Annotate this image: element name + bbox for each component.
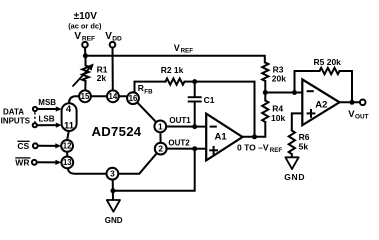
label CS (active low)	[17, 141, 29, 151]
svg-text:V: V	[105, 31, 112, 42]
svg-text:10k: 10k	[271, 113, 285, 123]
junction R2/C1/feedback	[192, 79, 197, 84]
wire+arrow LSB to pin 11	[37, 123, 62, 128]
wire feedback top (junction to riser)	[195, 82, 255, 137]
terminal MSB (open circle)	[33, 107, 37, 111]
terminal WR (open circle)	[32, 160, 37, 165]
svg-text:4: 4	[66, 104, 72, 115]
svg-text:LSB: LSB	[39, 115, 55, 124]
wire A1 output to R4 bottom	[243, 122, 266, 137]
label R6 5k	[299, 132, 310, 152]
label R3 20k	[272, 64, 286, 83]
svg-text:R2 1k: R2 1k	[161, 65, 184, 75]
svg-text:A2: A2	[315, 99, 327, 110]
label VOUT	[348, 109, 368, 121]
svg-text:1: 1	[158, 121, 163, 131]
label AD7524	[92, 124, 142, 139]
pin 3 (GND)	[107, 168, 119, 180]
pin 12 (CS)	[61, 140, 73, 152]
terminal CS (open circle)	[33, 143, 38, 148]
svg-text:V: V	[74, 31, 81, 42]
junction R3/R4 to A2 input	[263, 90, 268, 95]
pin 11 number (LSB input)	[64, 120, 75, 131]
label WR (active low)	[15, 158, 30, 168]
svg-text:5k: 5k	[299, 142, 309, 152]
svg-text:R6: R6	[299, 132, 310, 142]
wire VDD terminal down to pin 14	[112, 48, 114, 92]
svg-text:OUT: OUT	[355, 114, 369, 121]
resistor R5 20k	[320, 68, 340, 74]
junction pin3/OUT2 ground node	[111, 188, 116, 193]
wire OUT1 pin1 to A1 inverting input	[166, 126, 206, 128]
label ±10V (ac or dc) supply note	[68, 11, 102, 31]
wire VREF terminal to junction	[84, 48, 86, 56]
pin 13 (WR)	[61, 157, 73, 169]
svg-text:INPUTS: INPUTS	[1, 117, 31, 126]
label OUT2	[168, 138, 190, 147]
label C1	[204, 95, 215, 105]
capacitor C1	[188, 82, 202, 127]
resistor R1 2k (variable, arrow)	[73, 56, 94, 91]
label R4 10k	[271, 103, 285, 123]
pin 1 (OUT1)	[154, 121, 166, 133]
svg-text:OUT1: OUT1	[169, 116, 191, 125]
junction C1 bottom on OUT1 wire	[192, 124, 197, 129]
svg-text:2: 2	[158, 144, 163, 154]
svg-text:0 TO –V: 0 TO –V	[237, 143, 269, 153]
junction A1 output / feedback riser	[252, 134, 257, 139]
junction A2 output / R5	[350, 100, 355, 105]
svg-text:WR: WR	[15, 158, 29, 168]
pin 4 number (MSB input)	[66, 104, 72, 115]
label VREF on bus	[174, 43, 193, 55]
terminal VREF (open circle)	[82, 42, 88, 48]
label 0 TO -VREF	[237, 143, 282, 155]
pin 2 (OUT2)	[155, 143, 167, 155]
svg-text:3: 3	[110, 169, 115, 179]
svg-text:20k: 20k	[272, 73, 286, 83]
label MSB	[38, 98, 56, 107]
wire ground bus to OUT2 drop	[113, 149, 195, 191]
terminal VDD (open circle)	[110, 42, 116, 48]
svg-text:REF: REF	[181, 48, 194, 55]
svg-text:15: 15	[81, 92, 90, 101]
svg-text:11: 11	[64, 120, 75, 131]
op-amp A2	[302, 79, 339, 125]
node VDD terminal label	[105, 31, 122, 43]
resistor R2 1k	[166, 79, 195, 85]
label RFB	[138, 83, 153, 95]
svg-text:DATA: DATA	[3, 108, 24, 117]
svg-text:CS: CS	[17, 141, 29, 151]
svg-text:GND: GND	[284, 172, 305, 182]
wire OUT2 pin2 to A1 non-inverting input	[167, 148, 207, 150]
svg-text:14: 14	[109, 92, 118, 101]
svg-text:C1: C1	[204, 95, 215, 105]
pin 16 (RFB)	[127, 92, 139, 104]
label R1 2k	[97, 65, 108, 84]
wire A2 plus input to R6	[292, 113, 303, 130]
terminal VOUT (open circle)	[360, 100, 366, 106]
label R2 1k	[161, 65, 184, 75]
label GND right	[284, 172, 305, 182]
svg-text:12: 12	[63, 142, 72, 151]
node VREF input terminal label	[74, 31, 95, 43]
svg-text:AD7524: AD7524	[92, 124, 142, 139]
op-amp A1	[206, 114, 242, 161]
svg-text:R4: R4	[272, 103, 283, 113]
dashed line between MSB and LSB terminals	[34, 112, 36, 122]
svg-text:OUT2: OUT2	[168, 138, 190, 147]
junction A2 inverting input / R5 riser	[292, 90, 297, 95]
wire A2 output	[340, 101, 360, 103]
pin 14 (VDD)	[107, 90, 119, 102]
svg-text:FB: FB	[144, 88, 153, 95]
svg-text:A1: A1	[215, 131, 228, 142]
svg-text:2k: 2k	[97, 73, 107, 83]
label LSB	[39, 115, 55, 124]
svg-text:GND: GND	[105, 216, 123, 225]
svg-text:REF: REF	[270, 147, 283, 154]
pin 15 (VREF)	[79, 90, 91, 102]
label GND left	[105, 216, 123, 225]
wire R5 feedback loop	[295, 71, 353, 102]
junction VREF bus / R1	[83, 53, 88, 58]
svg-text:±10V: ±10V	[74, 11, 98, 22]
terminal LSB (open circle)	[33, 123, 37, 127]
ground symbol (right, R6)	[285, 157, 298, 169]
svg-text:MSB: MSB	[38, 98, 56, 107]
wire+arrow CS to pin 12	[38, 143, 61, 148]
svg-text:13: 13	[63, 158, 72, 167]
wire VREF bus (top rail to R3)	[85, 56, 264, 63]
op-amp-ic U1 AD7524 outline	[62, 96, 161, 173]
label OUT1	[169, 116, 191, 125]
junction OUT2 / ground drop	[192, 146, 197, 151]
resistor R3 20k	[262, 63, 268, 93]
ground symbol (left, AD7524 pin3)	[107, 200, 120, 212]
svg-text:R5 20k: R5 20k	[314, 57, 342, 67]
label R5 20k	[314, 57, 342, 67]
svg-text:(ac or dc): (ac or dc)	[68, 22, 102, 31]
resistor R6 5k	[289, 131, 295, 158]
resistor R4 10k	[262, 93, 268, 122]
svg-text:V: V	[174, 43, 180, 53]
svg-text:R: R	[138, 83, 144, 93]
wire+arrow WR to pin 13	[37, 160, 61, 165]
wire R3/R4 junction to A2 inverting input	[265, 92, 302, 94]
svg-text:16: 16	[129, 94, 138, 103]
label DATA INPUTS	[1, 108, 31, 126]
wire pin16 up to R2	[135, 82, 166, 93]
wire+arrow MSB to pin 4	[37, 106, 61, 111]
wire pin 3 to ground junction	[112, 180, 114, 200]
